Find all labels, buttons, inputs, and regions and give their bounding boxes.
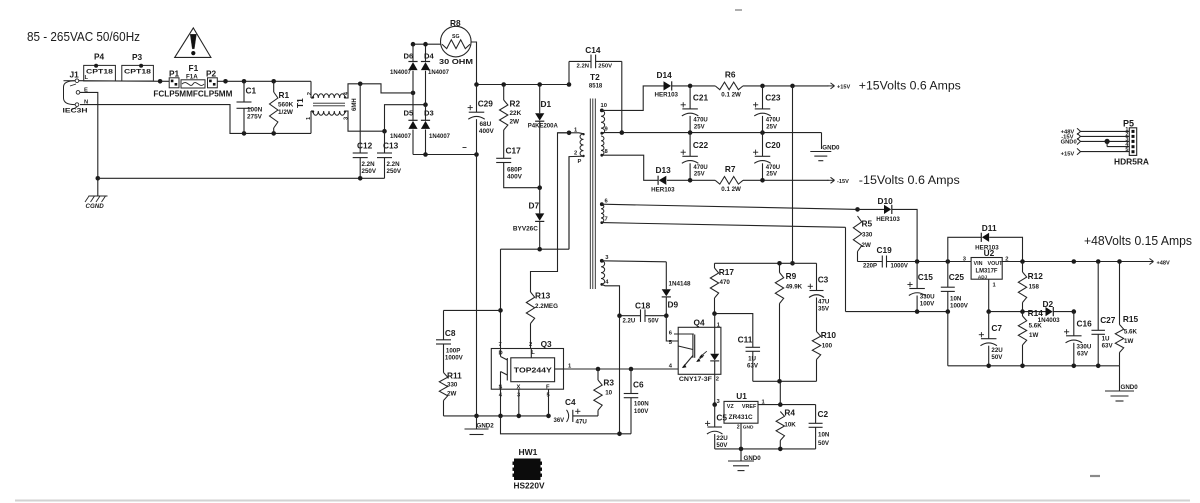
svg-text:36V: 36V [554,418,565,424]
svg-text:VREF: VREF [742,404,757,410]
svg-text:30 OHM: 30 OHM [439,59,473,66]
svg-text:C18: C18 [635,301,651,311]
svg-text:560K: 560K [278,102,294,109]
resistor R17 470 [710,263,734,313]
capacitor C23 470U 25V [753,86,781,133]
svg-text:C7: C7 [991,323,1002,333]
capacitor C18 2.2U 50V [617,301,668,325]
svg-text:250V: 250V [362,168,377,175]
svg-text:2W: 2W [447,391,456,398]
svg-text:49.9K: 49.9K [786,283,803,290]
svg-text:10: 10 [605,389,612,396]
capacitor C14 2.2N 250V [569,45,622,132]
svg-text:SG: SG [452,34,460,40]
diode D13 HER103 [651,165,690,194]
wire: pin8 to D13 [602,155,658,180]
svg-text:63V: 63V [1102,343,1114,350]
svg-text:330: 330 [447,381,458,388]
output arrow +48V [1147,259,1170,267]
thermistor R8 SG 30 OHM [439,18,473,66]
svg-text:C16: C16 [1077,319,1093,329]
wire: drain node linking D7, primary pin2, TOP switch drain [498,157,569,349]
wire: +48V input rail [915,259,971,264]
svg-text:+15V: +15V [1061,151,1075,157]
wire: Q3 pin stubs to source rail [501,389,549,416]
svg-text:22U: 22U [716,435,728,442]
svg-text:VOUT: VOUT [988,261,1004,267]
wire: U1 ground rail [715,423,816,451]
wire: R8 to HV+ rail [471,42,476,85]
svg-text:GND0: GND0 [1061,139,1077,145]
svg-text:1/2W: 1/2W [278,109,294,116]
connector P1 FCLP5MM [169,69,180,88]
svg-text:25V: 25V [766,172,777,178]
capacitor C16 330U 63V [1064,312,1092,366]
svg-text:1N4148: 1N4148 [669,281,692,287]
resistor R13 2.2MEG [526,133,569,349]
svg-text:470U: 470U [766,165,780,171]
resistor R2 22K 2W [500,85,522,131]
svg-text:C14: C14 [585,45,601,55]
resistor R3 10 [594,369,615,410]
svg-text:470U: 470U [766,118,780,124]
wire: divider bottom row [753,379,817,384]
capacitor C21 470U 25V [681,86,709,133]
svg-text:CGND: CGND [86,203,105,210]
T2 secondary winding 6-7 [600,199,609,225]
svg-text:R14: R14 [1028,308,1044,318]
svg-text:C25: C25 [949,272,965,282]
diode D7 BYV26C [513,188,544,250]
diode D11 HER103 bypass [948,223,1023,261]
connector J1 IEC3H [63,70,89,115]
svg-text:ADJ: ADJ [978,274,988,279]
wire: primary source/ground rail [444,414,551,419]
svg-text:TOP244Y: TOP244Y [514,365,552,374]
wire: control ground return [501,416,632,436]
T2 bias winding 3-4 [600,255,609,286]
svg-text:R13: R13 [535,290,551,300]
svg-text:2.2N: 2.2N [387,161,401,168]
P5 wire +15V pin5 [1061,148,1130,157]
svg-text:D9: D9 [668,300,679,310]
svg-text:CPT18: CPT18 [86,69,113,76]
wire: bridge negative rail [413,152,479,157]
svg-text:1000V: 1000V [891,264,908,270]
svg-text:47U: 47U [576,418,588,425]
wire: Y-cap return to chassis ground [98,176,385,181]
heatsink HW1 HS220V [513,447,545,490]
wire: bias pin4 return [602,284,620,433]
resistor R11 330 2W [439,370,462,416]
wire: U2 ADJ to divider row [986,279,1045,314]
svg-text:C2: C2 [818,409,829,419]
diode D1 P4KE200A [528,85,559,188]
svg-text:C5: C5 [716,412,727,422]
svg-text:GND0: GND0 [744,455,762,462]
svg-text:1W: 1W [1029,332,1038,339]
svg-text:10N: 10N [950,296,962,303]
svg-text:1U: 1U [748,356,756,363]
svg-text:25V: 25V [694,124,705,130]
wire: opto LED anode to feedback node [714,314,716,328]
svg-text:VIN: VIN [974,261,983,267]
switcher IC Q3 TOP244Y [491,339,572,399]
svg-text:D6: D6 [404,52,414,61]
svg-text:GND0: GND0 [822,145,840,152]
capacitor C6 100N 100V [624,369,649,434]
output text +15Volts 0.6 Amps [859,78,961,92]
wire: pin10 to D14 [602,86,664,111]
output arrow -15V [828,177,850,185]
svg-text:FCLP5MMFCLP5MM: FCLP5MMFCLP5MM [153,90,232,99]
svg-text:GND: GND [743,424,754,430]
resistor R1 560K 1/2W [270,81,294,133]
svg-text:R6: R6 [725,70,736,80]
regulator U2 LM317F [963,248,1009,289]
svg-text:HER103: HER103 [975,244,999,251]
wire: T1 pin4 to bridge [345,82,415,99]
svg-text:+15Volts 0.6 Amps: +15Volts 0.6 Amps [859,78,961,92]
svg-text:2.2N: 2.2N [362,161,376,168]
wire: -15V rail [688,178,829,183]
svg-text:2: 2 [737,424,740,430]
svg-text:T1: T1 [295,98,305,108]
junction: clamp node D1/C17/D7 [537,185,542,190]
wire: +15V rail [688,84,829,89]
svg-text:R17: R17 [719,267,735,277]
wire: HV+ rail [474,82,571,87]
svg-text:100N: 100N [634,400,649,407]
svg-text:D10: D10 [878,196,894,206]
svg-text:HDR5RA: HDR5RA [1114,157,1149,167]
svg-text:P1: P1 [169,69,180,79]
svg-text:100: 100 [822,342,833,349]
svg-text:CPT18: CPT18 [124,69,151,76]
svg-text:+15V: +15V [837,84,850,90]
svg-text:HS220V: HS220V [514,480,545,490]
wire: bridge positive rail to thermistor R8 [411,42,441,47]
diode D10 HER103 [858,196,918,262]
capacitor C5 22U 50V [705,405,728,449]
svg-text:50V: 50V [991,354,1003,361]
junction: L line before P1 [158,79,163,84]
svg-text:P: P [578,159,582,165]
T2 secondary winding 9-8 [600,136,608,157]
wire: Q3 control pin 1 line [564,367,679,372]
resistor R7 0.1 2W [715,164,743,193]
svg-text:2: 2 [307,92,313,95]
fuse F1 F1A [181,63,205,88]
svg-text:330U: 330U [1077,344,1092,351]
wire: C8 top link to drain [444,310,501,339]
svg-text:HW1: HW1 [519,447,538,457]
output arrow +15V [828,83,851,91]
capacitor C15 330U 100V [907,262,935,312]
optocoupler Q4 CNY17-3F [669,317,721,383]
svg-text:400V: 400V [507,174,523,181]
svg-text:85 - 265VAC 50/60Hz: 85 - 265VAC 50/60Hz [27,30,140,44]
svg-text:1000V: 1000V [950,303,969,310]
wire: T1 pin3 to bridge [345,102,428,133]
shunt regulator U1 ZR431C [717,391,781,430]
svg-text:25V: 25V [766,124,777,130]
svg-text:GND0: GND0 [1121,384,1139,391]
wire: opto collector to C18 node [666,316,678,341]
ground GND2 [465,416,495,435]
wire: +15V feedback drop to divider [790,86,795,266]
wire: U2 VOUT +48V rail [1002,259,1147,264]
svg-text:C29: C29 [478,99,494,109]
svg-text:2: 2 [716,376,719,382]
svg-text:R4: R4 [784,407,795,417]
capacitor C2 10N 50V [809,405,830,449]
svg-text:HER103: HER103 [876,216,900,223]
svg-text:+48Volts 0.15 Amps: +48Volts 0.15 Amps [1084,234,1192,248]
svg-text:50V: 50V [818,440,830,447]
svg-text:D7: D7 [529,201,540,211]
svg-text:47U: 47U [818,298,830,305]
svg-text:6MH: 6MH [352,98,358,111]
svg-text:1N4007: 1N4007 [429,134,451,140]
svg-text:L: L [531,350,535,356]
svg-text:D14: D14 [657,70,673,80]
svg-text:0.1 2W: 0.1 2W [721,186,741,193]
svg-text:7: 7 [499,342,502,348]
ground GND0 secondary centre [810,145,840,161]
svg-text:1000V: 1000V [445,355,464,362]
capacitor C20 470U 25V [753,133,781,181]
svg-text:5.6K: 5.6K [1124,329,1138,336]
P5 wire GND0 pin3 [1061,138,1130,145]
svg-text:Q4: Q4 [694,317,705,327]
svg-text:C15: C15 [918,272,934,282]
svg-text:8518: 8518 [589,83,603,89]
junction: D2 to C16 column [1072,309,1077,314]
svg-text:-15Volts 0.6 Amps: -15Volts 0.6 Amps [859,173,960,187]
jumper P3 CPT18 [122,52,154,81]
svg-text:BYV26C: BYV26C [513,226,539,233]
svg-text:-15V: -15V [837,179,849,185]
svg-text:R1: R1 [279,90,290,100]
output text +48Volts 0.15 Amps [1084,234,1192,248]
svg-text:470U: 470U [693,118,707,124]
svg-text:470U: 470U [693,165,707,171]
svg-text:680P: 680P [507,166,523,173]
svg-text:63V: 63V [1077,351,1089,358]
svg-text:250V: 250V [387,168,402,175]
capacitor C27 1U 63V [1091,262,1115,366]
resistor R12 158 [1018,262,1043,312]
svg-text:R12: R12 [1028,271,1044,281]
svg-text:P4: P4 [94,52,105,62]
svg-text:22K: 22K [510,110,522,117]
svg-text:F1A: F1A [186,74,198,81]
diode D4 1N4007 [421,44,450,104]
svg-text:D4: D4 [424,52,434,61]
svg-text:D1: D1 [541,99,552,109]
svg-text:D5: D5 [404,109,414,118]
ground GND0 48V section [1105,366,1138,401]
svg-text:C23: C23 [765,92,781,102]
resistor R6 0.1 2W [715,70,743,99]
output text -15Volts 0.6 Amps [859,173,960,187]
svg-text:158: 158 [1029,283,1040,290]
capacitor C8 100P 1000V [436,328,464,373]
wire: bias pin3 to D9 [602,261,667,290]
P5 wire +48V pin1 [1061,128,1130,135]
svg-text:2.2U: 2.2U [623,319,636,325]
svg-text:HER103: HER103 [651,187,675,194]
wire: pin7 return to 48V ground rail [602,223,950,314]
svg-text:HER103: HER103 [655,92,679,99]
svg-text:330U: 330U [920,293,935,300]
capacitor C7 22U 50V [979,312,1003,366]
svg-text:R2: R2 [510,99,521,109]
wire: opto LED cathode to U1 [712,374,717,407]
wire: earth from J1 E to CGND [80,92,100,196]
transformer T2 8518 core [589,72,603,289]
svg-text:R5: R5 [862,218,873,228]
T2 primary winding pins 1-2 [569,128,585,250]
svg-text:R10: R10 [821,330,837,340]
capacitor C1 100N 275V [237,81,263,133]
svg-text:2: 2 [574,151,577,157]
svg-text:0.1 2W: 0.1 2W [721,91,741,98]
resistor R14 5.6K 1W [1018,308,1043,366]
svg-text:7: 7 [605,217,608,223]
wire: pin9 centre rail to GND0 [602,130,822,149]
svg-text:CNY17-3F: CNY17-3F [679,376,712,383]
svg-text:D13: D13 [656,165,672,175]
svg-text:1N4007: 1N4007 [390,134,412,140]
svg-text:35V: 35V [818,305,830,312]
svg-text:C17: C17 [506,146,522,156]
svg-text:C12: C12 [357,141,373,151]
svg-text:P3: P3 [132,52,143,62]
wire: AC line L from J1 through jumpers to fuse [79,80,169,83]
svg-text:100P: 100P [446,348,460,355]
junction: primary pin1 / C14 / R13 node [558,131,572,136]
svg-text:68U: 68U [480,121,492,128]
svg-text:25V: 25V [694,172,705,178]
wire: AC neutral from J1 [80,105,311,136]
svg-text:C6: C6 [633,379,644,389]
svg-text:1U: 1U [1102,336,1110,343]
svg-text:R8: R8 [450,18,461,28]
resistor R9 49.9K [775,263,802,381]
capacitor C3 47U 35V [808,263,830,312]
resistor R15 5.6K 1W [1115,262,1138,366]
svg-text:IEC3H: IEC3H [63,108,88,115]
svg-text:Q3: Q3 [541,339,552,349]
resistor R10 100 [812,298,836,382]
svg-text:10K: 10K [784,421,796,428]
svg-text:C20: C20 [765,140,781,150]
svg-text:1W: 1W [1124,338,1133,345]
wire: feedback top rail [715,261,817,266]
svg-text:P4KE200A: P4KE200A [528,122,559,129]
T2 secondary winding 10-9 [600,103,609,135]
svg-text:250V: 250V [598,63,612,69]
svg-text:400V: 400V [479,128,495,135]
capacitor C11 1U 63V [712,311,760,381]
svg-text:R15: R15 [1123,314,1139,324]
svg-text:2W: 2W [862,242,871,249]
svg-text:22U: 22U [991,347,1003,354]
svg-text:R11: R11 [447,370,462,380]
wire: pin6 to D10 and R5 [602,204,860,212]
svg-text:R7: R7 [725,164,736,174]
svg-text:D3: D3 [424,109,434,118]
svg-text:100N: 100N [247,106,263,113]
svg-text:50V: 50V [648,319,659,325]
svg-text:330: 330 [862,232,873,239]
svg-text:470: 470 [720,279,731,286]
svg-text:63V: 63V [747,363,759,370]
svg-text:C27: C27 [1100,315,1116,325]
resistor R4 10K [776,407,796,449]
capacitor C12 2.2N 250V [353,84,377,179]
capacitor C17 680P 400V [496,130,540,188]
svg-text:10: 10 [601,103,607,109]
wire: U1 ref node to R4 C2 [778,381,816,407]
capacitor C13 2.2N 250V [377,131,402,178]
wire: HV- down to source rail [476,155,478,416]
svg-text:C11: C11 [738,335,753,345]
svg-text:C4: C4 [565,397,576,407]
svg-text:D11: D11 [982,223,997,233]
svg-text:C3: C3 [818,275,829,285]
connector P2 FCLP5MM [206,69,217,88]
svg-text:2: 2 [529,342,532,348]
svg-text:R9: R9 [786,271,797,281]
svg-text:10N: 10N [818,431,830,438]
connector P5 HDR5RA [1114,119,1149,167]
svg-text:C13: C13 [383,141,399,151]
wire: 48V section ground rail [948,312,1120,369]
resistor R5 330 2W [853,216,873,262]
svg-text:R3: R3 [603,377,614,387]
title text: input voltage rating [27,30,140,44]
svg-text:P2: P2 [206,69,217,79]
svg-text:J1: J1 [70,70,80,80]
svg-text:F1: F1 [189,63,199,73]
svg-text:+48V: +48V [1157,260,1170,266]
diode D9 1N4148 [662,281,691,315]
svg-text:100V: 100V [634,408,649,415]
capacitor C29 68U 400V [463,85,495,155]
capacitor C19 220P 1000V [858,245,918,270]
diode D5 1N4007 [390,93,418,155]
svg-text:5.6K: 5.6K [1029,323,1043,330]
capacitor C25 10N 1000V [941,262,969,312]
P5 wire pin4 tie to GND0 [1105,139,1130,147]
svg-text:C22: C22 [693,140,709,150]
svg-text:2.2N: 2.2N [577,63,589,69]
capacitor C4 47U 35V [554,397,599,426]
chassis ground CGND [85,196,108,210]
capacitor C22 470U 25V [681,133,709,181]
svg-text:D2: D2 [1043,299,1054,309]
svg-text:50V: 50V [716,442,728,449]
svg-text:100V: 100V [920,300,935,307]
diode D3 1N4007 [421,105,451,155]
svg-text:C8: C8 [445,328,456,338]
diode D6 1N4007 [390,44,418,93]
common-mode choke T1 6MH [295,81,358,133]
diode D14 HER103 [655,70,691,99]
